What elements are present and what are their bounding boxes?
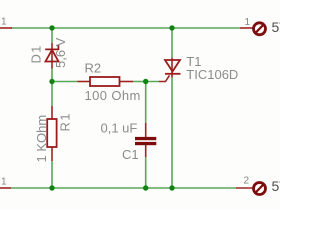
svg-text:100 Ohm: 100 Ohm [85,88,141,103]
svg-text:C1: C1 [122,147,139,162]
svg-text:R2: R2 [85,61,102,76]
svg-text:5V: 5V [272,19,281,35]
svg-text:2: 2 [244,176,250,187]
svg-text:D1: D1 [29,44,44,63]
svg-text:1: 1 [245,17,251,28]
svg-text:5,6 V: 5,6 V [53,37,68,68]
svg-text:1: 1 [1,17,7,28]
svg-text:5V: 5V [272,178,281,194]
svg-text:TIC106D: TIC106D [186,67,238,82]
svg-text:0,1 uF: 0,1 uF [101,121,138,136]
svg-text:1: 1 [1,177,7,188]
svg-text:R1: R1 [58,112,73,132]
svg-text:1 KOhm: 1 KOhm [34,115,49,163]
